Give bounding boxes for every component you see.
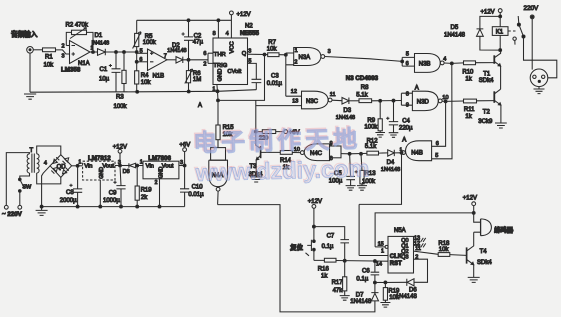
junction C2 R6 node	[187, 58, 190, 61]
svg-text:N3B: N3B	[419, 62, 431, 68]
IC N2 NE555	[213, 38, 248, 85]
wire N3D out	[442, 100, 446, 102]
wire jack ground drop	[29, 53, 31, 92]
svg-text:7: 7	[164, 54, 167, 60]
wire +12V to relay node	[499, 13, 501, 17]
svg-text:N4B: N4B	[411, 151, 423, 157]
wire 7812 gnd	[99, 180, 101, 207]
svg-text:1M: 1M	[193, 77, 201, 83]
svg-text:10k: 10k	[267, 47, 278, 53]
svg-text:5.1k: 5.1k	[356, 93, 368, 99]
svg-text:N3 CD4093: N3 CD4093	[346, 75, 379, 82]
svg-text:电子制作天地: 电子制作天地	[193, 126, 362, 157]
wire N4A loop to node A	[359, 153, 401, 205]
svg-text:3: 3	[180, 160, 183, 166]
svg-text:R1: R1	[45, 55, 53, 61]
svg-text:2k: 2k	[141, 195, 148, 201]
junction 7812 gnd bus	[99, 205, 102, 208]
resistor R19 10k	[384, 282, 386, 302]
svg-text:9: 9	[406, 103, 409, 109]
svg-text:R6: R6	[193, 71, 201, 77]
svg-text:THR: THR	[214, 52, 226, 58]
svg-text:VCC: VCC	[230, 41, 236, 53]
svg-text:1k: 1k	[321, 274, 328, 280]
svg-text:C6: C6	[362, 269, 370, 275]
svg-text:C7: C7	[327, 233, 335, 239]
relay contact arm	[517, 16, 520, 25]
junction node A	[217, 99, 220, 102]
svg-text:D6: D6	[409, 288, 417, 294]
svg-text:1N4148: 1N4148	[396, 294, 418, 300]
wire +12V rail top	[137, 19, 232, 21]
svg-text:N1B: N1B	[153, 74, 165, 80]
junction 555 gnd bus	[216, 90, 219, 93]
junction Q node	[263, 53, 266, 56]
junction pin6	[135, 60, 138, 63]
svg-text:47µ: 47µ	[193, 39, 204, 45]
svg-text:QD: QD	[57, 165, 67, 171]
svg-text:音频输入: 音频输入	[11, 30, 38, 39]
op-amp N1A	[70, 41, 91, 64]
junction R13	[360, 152, 363, 155]
svg-text:T4: T4	[480, 249, 488, 255]
transistor T1	[493, 55, 495, 64]
junction R6 bus	[187, 90, 190, 93]
junction R3 top	[123, 51, 126, 54]
gate N4A	[211, 148, 226, 161]
svg-text:8: 8	[213, 31, 216, 37]
diode D8	[129, 163, 136, 168]
svg-text:5: 5	[140, 49, 143, 55]
junction node A at N4B	[400, 151, 403, 154]
svg-text:C1: C1	[100, 67, 108, 73]
svg-text:12: 12	[291, 89, 297, 95]
svg-text:1N4148: 1N4148	[381, 167, 400, 173]
svg-text:15: 15	[378, 242, 384, 248]
buzzer HA	[480, 219, 482, 236]
capacitor C9	[116, 166, 125, 207]
wire bridge plus	[72, 165, 83, 167]
wire mains live	[6, 153, 29, 206]
wire N3A N3C input column	[286, 53, 302, 96]
wire 220V to socket	[531, 19, 533, 70]
wire R2 feedback loop	[66, 32, 93, 52]
svg-text:+12V: +12V	[308, 199, 322, 205]
junction R9	[379, 99, 382, 102]
relay K1 coil	[499, 16, 501, 50]
pin 15 enable	[385, 245, 388, 248]
junction N3B input	[401, 60, 404, 63]
svg-text:10k: 10k	[439, 247, 450, 253]
svg-text:+6V: +6V	[179, 143, 190, 149]
wire RST row	[314, 259, 388, 262]
pin 1 stub GND	[216, 85, 219, 92]
resistor R17	[344, 261, 346, 296]
ground T4	[468, 277, 480, 282]
junction R19a bus	[136, 205, 139, 208]
svg-text:T1: T1	[483, 72, 491, 78]
wire N3C pin13 column	[256, 100, 302, 131]
svg-text:SDk4: SDk4	[479, 78, 494, 84]
transistor T2	[493, 91, 495, 103]
svg-text:2000µ: 2000µ	[60, 198, 77, 204]
svg-text:10k: 10k	[44, 63, 55, 69]
svg-text:D3: D3	[343, 108, 351, 114]
wire buzzer leads	[474, 213, 481, 232]
wire D3 to R8	[349, 100, 359, 102]
svg-text:N2: N2	[245, 24, 253, 30]
regulator LM7812	[83, 161, 115, 180]
wire N4A output loop to D7	[218, 205, 375, 312]
ground C5	[346, 186, 356, 191]
junction D1 net at R5	[135, 51, 138, 54]
wire 555 input tie bar	[208, 53, 213, 63]
svg-text:R5: R5	[145, 34, 153, 40]
svg-text:N3A: N3A	[299, 55, 311, 61]
svg-text:100k: 100k	[364, 124, 378, 130]
pin Q2 wire	[414, 251, 467, 255]
svg-text:1000µ: 1000µ	[103, 198, 120, 204]
svg-text:3: 3	[248, 49, 251, 55]
wire node A link	[218, 55, 265, 101]
diode D6	[407, 279, 414, 286]
svg-text:1N4148: 1N4148	[350, 299, 372, 305]
svg-text:10k: 10k	[141, 80, 152, 86]
wire bridge minus	[42, 166, 51, 207]
wire R8 to N3D	[372, 100, 402, 102]
resistor R19 2k	[136, 166, 138, 207]
svg-text:100k: 100k	[114, 104, 128, 110]
resistor R7	[265, 54, 286, 56]
capacitor C3	[252, 79, 262, 89]
svg-text:220V: 220V	[524, 5, 540, 12]
svg-text:6: 6	[436, 141, 439, 147]
terminal +12V top	[230, 11, 234, 15]
wire switch to terminal	[19, 191, 21, 206]
svg-text:R19: R19	[141, 188, 153, 194]
ground socket	[534, 87, 545, 94]
wire 7806 out	[179, 165, 185, 167]
svg-text:3Ck9: 3Ck9	[478, 119, 493, 125]
resistor R3	[123, 52, 125, 92]
svg-text:1k: 1k	[465, 77, 472, 83]
svg-text:GND: GND	[218, 69, 224, 82]
junction C5	[348, 152, 351, 155]
svg-text:A: A	[402, 138, 406, 144]
svg-text:D5: D5	[451, 25, 459, 31]
terminal +12V supply	[118, 149, 122, 153]
svg-text:Vin: Vin	[146, 163, 154, 169]
bridge rectifier QD	[50, 155, 72, 178]
ground R9	[375, 133, 385, 138]
svg-text:R8: R8	[361, 85, 369, 91]
wire N1B pin6 stub	[137, 61, 148, 63]
resistor R15	[217, 100, 219, 147]
gate N3C	[302, 91, 329, 109]
svg-text:2: 2	[62, 43, 65, 49]
wire D1 to N1B net	[105, 51, 136, 53]
terminal mains L	[4, 205, 8, 209]
wire N4A output	[217, 191, 220, 205]
svg-text:4: 4	[226, 31, 229, 37]
resistor R4	[135, 71, 139, 84]
svg-text:SDk4: SDk4	[477, 260, 492, 266]
svg-text:复位: 复位	[289, 243, 303, 252]
pin Q1 stub	[414, 243, 426, 247]
wire Q3 loop	[414, 259, 428, 282]
gate N3D	[412, 91, 438, 110]
junction C9 bus	[120, 205, 123, 208]
transistor T4	[466, 247, 468, 263]
svg-text:220µ: 220µ	[399, 125, 413, 131]
svg-text:5: 5	[435, 153, 438, 159]
svg-text:TRIG: TRIG	[213, 63, 227, 69]
svg-text:0.1µ: 0.1µ	[356, 276, 368, 282]
svg-text:13: 13	[292, 99, 298, 105]
wire N3A out to N3B	[325, 57, 403, 62]
pin 8 stub	[217, 20, 219, 38]
capacitor C6	[371, 261, 380, 282]
svg-text:LM7812: LM7812	[88, 155, 111, 162]
junction relay bottom	[499, 49, 502, 52]
svg-text:1: 1	[295, 48, 298, 54]
svg-text:C8: C8	[66, 190, 74, 196]
svg-text:6: 6	[139, 57, 142, 63]
svg-text:N5A: N5A	[394, 228, 406, 234]
svg-text:N3D: N3D	[417, 100, 430, 106]
diode D7	[371, 283, 378, 301]
wire 7812 out rail	[115, 165, 129, 167]
watermark 电子制作天地	[192, 125, 370, 186]
wire N3D input bracket	[401, 93, 412, 105]
svg-text:D4: D4	[387, 160, 395, 166]
svg-text:5.1k: 5.1k	[365, 144, 377, 150]
svg-text:R7: R7	[268, 40, 276, 46]
relay NC contact	[513, 37, 516, 40]
wire secondary top	[37, 146, 61, 155]
svg-text:~ 220V: ~ 220V	[2, 211, 23, 218]
svg-text:3: 3	[62, 54, 65, 60]
svg-text:2: 2	[415, 254, 418, 260]
junction C8 bus	[76, 205, 79, 208]
resistor R1	[43, 48, 56, 52]
svg-text:2: 2	[155, 180, 158, 186]
resistor R13	[361, 154, 362, 186]
svg-text:1N4148: 1N4148	[167, 48, 186, 54]
wire D8 to 7806	[136, 165, 143, 167]
junction 7806 gnd bus	[158, 205, 161, 208]
svg-text:蜂鸣器: 蜂鸣器	[494, 225, 514, 234]
capacitor C2	[184, 20, 193, 60]
svg-text:GND: GND	[99, 167, 105, 179]
svg-text:IN4148: IN4148	[92, 41, 110, 47]
terminal 220V	[530, 15, 534, 19]
junction C7 R17	[343, 259, 346, 262]
wire N3B out	[444, 62, 452, 64]
svg-text:+12V: +12V	[237, 12, 251, 18]
junction N3B out	[450, 62, 453, 65]
svg-text:0.01µ: 0.01µ	[188, 192, 204, 198]
junction C8	[76, 164, 79, 167]
pin Q0 stub	[414, 238, 426, 242]
svg-text:Q3: Q3	[401, 255, 408, 261]
diode D1	[98, 49, 106, 56]
junction +12V buzzer	[472, 212, 475, 215]
wire N1A pin2 stub	[66, 45, 69, 47]
svg-text:NE555: NE555	[240, 30, 259, 37]
svg-text:+12V: +12V	[463, 195, 477, 201]
junction N3D out	[444, 100, 447, 103]
ground supply bus	[36, 207, 48, 216]
resistor R16	[324, 258, 336, 262]
svg-text:C9: C9	[109, 190, 117, 196]
wire ground bus top section	[30, 90, 256, 93]
wire N1B out	[167, 59, 176, 61]
svg-text:N3C: N3C	[306, 99, 319, 105]
svg-text:1: 1	[78, 160, 81, 166]
svg-text:100k: 100k	[143, 40, 157, 46]
diode D4	[388, 150, 395, 156]
gate N4B	[406, 141, 432, 161]
svg-text:4: 4	[443, 56, 446, 62]
svg-text:1N4148: 1N4148	[444, 32, 466, 38]
svg-text:R10: R10	[462, 70, 474, 76]
wire R1 to N1A pin3	[56, 50, 70, 54]
svg-text:A: A	[415, 85, 419, 91]
gate N3B	[415, 54, 441, 73]
ground R19	[380, 303, 390, 308]
wire N1A out to D1	[90, 51, 98, 53]
svg-text:R11: R11	[464, 107, 475, 113]
junction N1A output	[92, 51, 95, 54]
wire jack to R1	[33, 49, 42, 51]
resistor R10	[452, 62, 495, 65]
svg-text:www.dzdiy.com: www.dzdiy.com	[194, 155, 369, 186]
svg-text:0.1µ: 0.1µ	[322, 244, 334, 250]
capacitor C7	[314, 227, 349, 261]
junction R7 out	[284, 53, 287, 56]
relay link dashes	[508, 30, 515, 32]
svg-text:C2: C2	[194, 33, 202, 39]
junction C2 rail	[187, 19, 190, 22]
svg-text:2: 2	[203, 61, 206, 67]
svg-text:Q: Q	[242, 51, 247, 57]
op-amp N1B	[148, 49, 168, 71]
capacitor C4	[389, 101, 398, 133]
svg-text:8: 8	[406, 91, 409, 97]
svg-text:RST: RST	[390, 261, 402, 267]
svg-text:4: 4	[44, 161, 47, 167]
ground R17	[340, 296, 350, 301]
wire D5 branch top	[480, 16, 500, 29]
terminal +6V supply	[183, 148, 187, 152]
svg-text:A: A	[198, 103, 202, 109]
terminal mains N	[18, 205, 22, 209]
svg-text:+12V: +12V	[481, 9, 495, 15]
transistor T3	[256, 132, 261, 149]
wire 7806 gnd	[159, 179, 161, 207]
svg-text:2: 2	[294, 60, 297, 66]
svg-text:SW: SW	[22, 184, 32, 190]
wire D5 bottom	[480, 36, 500, 50]
ground T2	[495, 123, 507, 128]
resistor R9	[379, 101, 381, 133]
junction R4 bus	[136, 90, 139, 93]
diode D3	[342, 98, 349, 105]
svg-text:0.01µ: 0.01µ	[267, 81, 283, 87]
svg-text:R9: R9	[367, 118, 375, 124]
junction C4	[392, 99, 395, 102]
svg-text:GND: GND	[159, 166, 165, 178]
svg-text:C4: C4	[402, 119, 410, 125]
svg-text:R16: R16	[318, 267, 330, 273]
potentiometer R6	[188, 60, 190, 92]
svg-text:LM358: LM358	[61, 67, 81, 74]
resistor R12	[367, 151, 379, 155]
svg-text:6: 6	[203, 51, 206, 57]
svg-text:11: 11	[330, 92, 336, 98]
svg-text:K1: K1	[496, 30, 504, 36]
svg-text:6: 6	[406, 61, 409, 67]
wire N1B input column	[136, 52, 138, 92]
wire N3B input bracket	[402, 57, 414, 66]
svg-text:D1: D1	[95, 33, 103, 39]
svg-text:D7: D7	[356, 293, 364, 299]
svg-text:R3: R3	[116, 94, 124, 100]
capacitor C5	[346, 154, 355, 186]
svg-text:1k: 1k	[465, 114, 472, 120]
wire N4B pin5 riser	[432, 63, 452, 158]
svg-text:T2: T2	[483, 110, 491, 116]
svg-text:1: 1	[212, 87, 215, 93]
svg-text:D8: D8	[123, 169, 130, 175]
ground T3	[250, 177, 262, 182]
resistor R11	[446, 100, 495, 103]
svg-text:10µ: 10µ	[99, 76, 110, 82]
diode D5	[477, 29, 484, 36]
wire N4C input box	[330, 146, 342, 158]
svg-text:R4: R4	[141, 73, 149, 79]
svg-text:1: 1	[140, 160, 143, 166]
resistor R8	[359, 99, 372, 103]
svg-text:+12V: +12V	[113, 144, 127, 150]
capacitor C1	[112, 52, 121, 92]
pin 5 CVolt wire	[248, 63, 257, 79]
wire supply ground bus	[42, 206, 185, 208]
junction R19a	[136, 164, 139, 167]
svg-text:1: 1	[381, 249, 384, 255]
svg-text:T: T	[30, 148, 34, 154]
junction C6 top	[374, 260, 377, 263]
junction bridge minus bus	[40, 205, 43, 208]
pin 4 stub	[230, 15, 232, 38]
wire secondary bottom	[37, 173, 61, 184]
ground R13	[357, 186, 367, 191]
svg-text:Vin: Vin	[84, 163, 92, 169]
svg-text:R17: R17	[332, 280, 344, 286]
wire CLK from node A	[359, 204, 388, 255]
ground jack	[24, 94, 36, 99]
capacitor C8	[73, 166, 82, 207]
wire to R12	[350, 152, 388, 155]
input jack J	[27, 47, 34, 54]
wire timing node row	[375, 281, 407, 283]
gate N4C	[304, 144, 329, 161]
diode D2	[176, 57, 183, 63]
switch SW	[19, 178, 22, 181]
pin 3 wire Q out	[248, 53, 265, 55]
svg-text:CVolt: CVolt	[227, 69, 241, 75]
